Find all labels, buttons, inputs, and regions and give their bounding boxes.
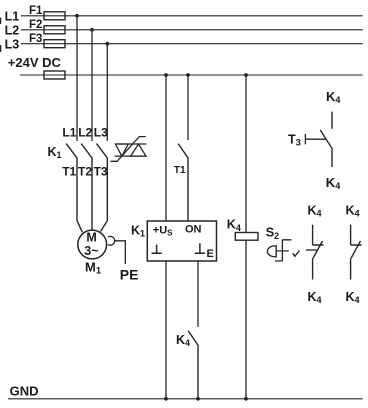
svg-text:F3: F3 (29, 33, 42, 45)
svg-text:L2: L2 (5, 24, 20, 38)
svg-text:PE: PE (120, 267, 139, 283)
fuse F4 (44, 71, 65, 79)
wire coil to GND (245, 240, 247, 399)
soft starter semiconductor symbol (110, 137, 146, 162)
junction GND dot 3 (244, 397, 248, 401)
svg-text:GND: GND (10, 384, 39, 399)
pushbutton S2 mushroom actuator (267, 246, 276, 257)
coil K4 (235, 233, 258, 241)
svg-text:M: M (86, 231, 96, 245)
fuse F2 (44, 26, 65, 34)
svg-text:F2: F2 (29, 19, 42, 31)
wire +24V to T1 contact (187, 75, 189, 140)
wire +24V rail (20, 74, 363, 76)
mechanical linkage S2 to contact (306, 249, 318, 251)
ground symbol left in box (152, 245, 162, 254)
junction L2 tap (90, 28, 94, 32)
svg-text:L2: L2 (78, 125, 92, 139)
fuse F1 (44, 12, 65, 20)
svg-text:+24V DC: +24V DC (8, 55, 62, 70)
wire +24V to coil K4 (245, 75, 247, 233)
wire +24V to +Us (165, 75, 167, 221)
wire phase 2 column (91, 30, 93, 141)
svg-text:T2: T2 (78, 165, 92, 179)
wire L3 (21, 43, 363, 45)
crop remnant marks at left edge (0, 18, 1, 25)
junction L1 tap (75, 14, 79, 18)
fuse F3 (44, 40, 65, 48)
wire PE (115, 241, 126, 264)
svg-text:L1: L1 (62, 125, 76, 139)
junction rail tap 2 (186, 73, 190, 77)
wire phase 3 column (106, 44, 108, 141)
contact K4 (below box) (188, 331, 198, 399)
device box K1 (147, 221, 216, 261)
contact T1 (timer) (178, 144, 188, 221)
svg-text:L1: L1 (5, 10, 20, 24)
ground symbol right in box (195, 243, 205, 253)
svg-text:L3: L3 (5, 37, 20, 51)
svg-text:L3: L3 (94, 125, 108, 139)
wire box to GND left (165, 261, 167, 399)
wire L1 (21, 15, 363, 17)
check mark (293, 251, 300, 257)
wire GND rail (8, 398, 363, 400)
svg-text:E: E (207, 248, 214, 260)
svg-text:T1: T1 (62, 165, 76, 179)
svg-text:T1: T1 (174, 165, 186, 176)
svg-text:ON: ON (185, 224, 202, 236)
wire L2 (21, 29, 363, 31)
wire phase 1 column (76, 16, 78, 141)
junction rail tap 3 (244, 73, 248, 77)
T3 actuator bar and linkage (305, 134, 326, 145)
junction GND dot 1 (164, 397, 168, 401)
svg-text:3~: 3~ (84, 244, 98, 258)
svg-text:T3: T3 (94, 165, 108, 179)
junction GND dot 2 (196, 397, 200, 401)
motor M1 (78, 230, 107, 259)
wire box E output down (197, 261, 199, 327)
junction L3 tap (105, 42, 109, 46)
junction rail tap 1 (164, 73, 168, 77)
svg-text:F1: F1 (29, 5, 43, 17)
PE terminal ear (108, 236, 115, 245)
